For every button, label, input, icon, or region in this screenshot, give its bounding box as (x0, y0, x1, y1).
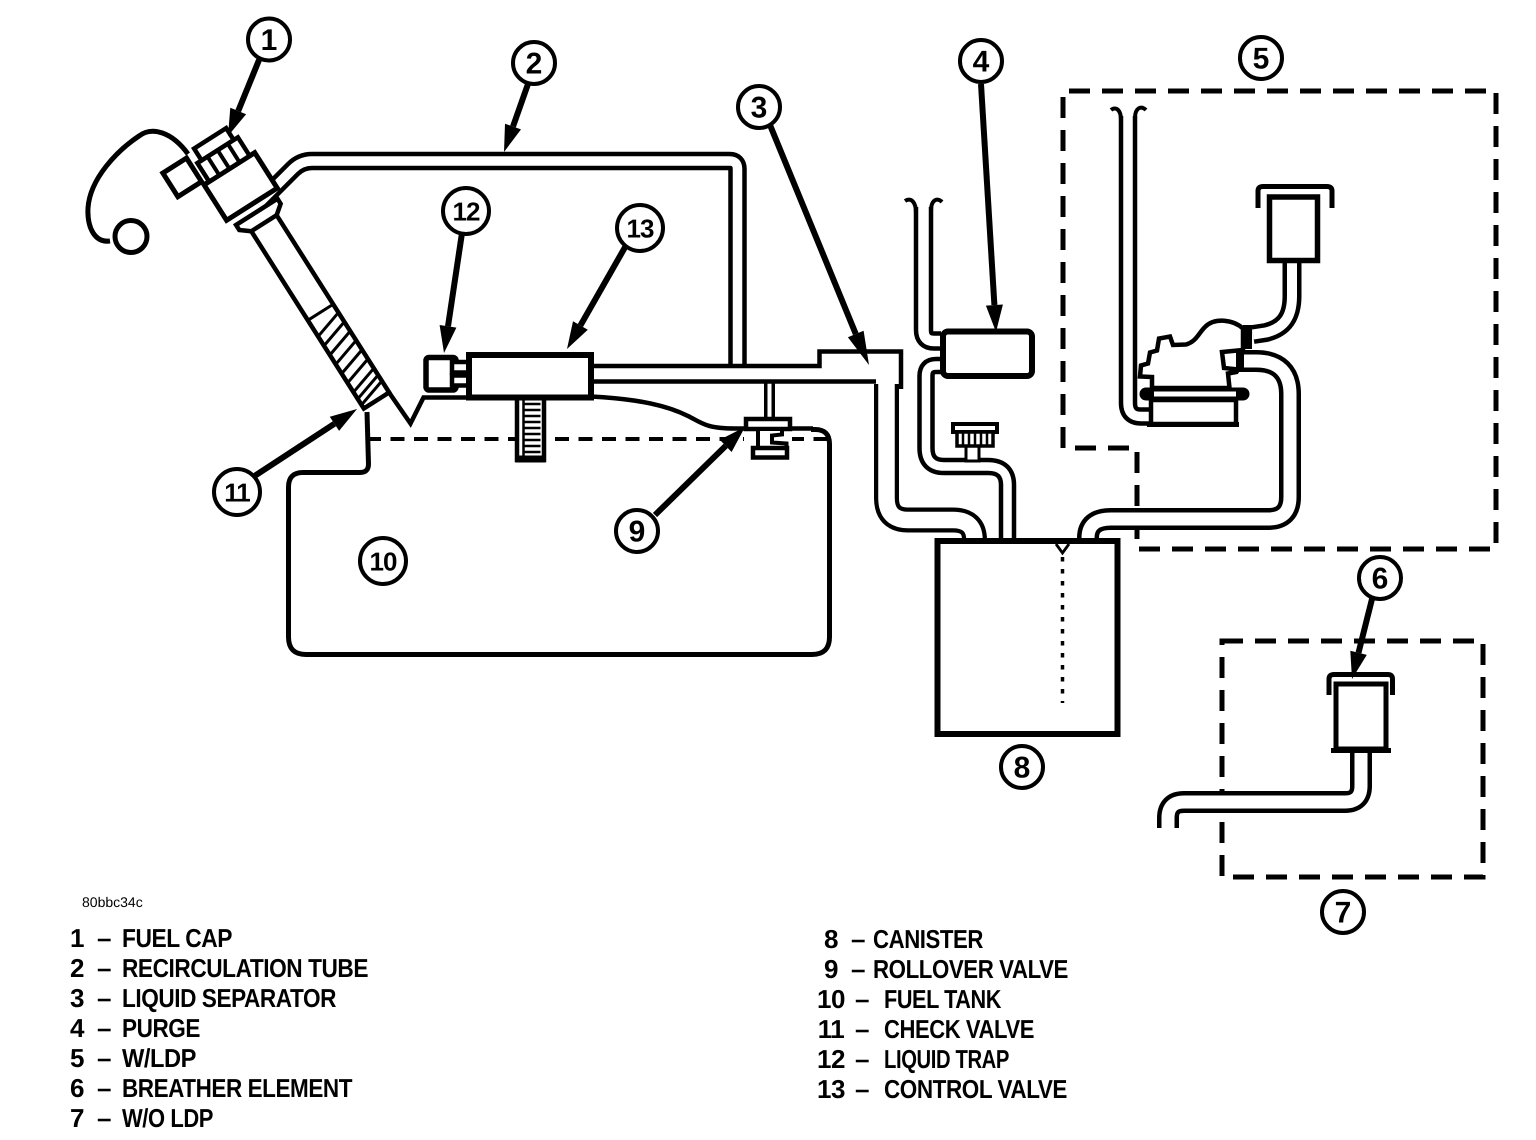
svg-text:3: 3 (70, 983, 84, 1013)
svg-text:11: 11 (224, 478, 250, 508)
svg-text:–: – (97, 1013, 111, 1043)
svg-text:2: 2 (70, 953, 84, 983)
canister (item 8) (938, 541, 1118, 734)
breather element (item 6) (1329, 675, 1393, 696)
callout circle 2 (513, 42, 555, 84)
svg-text:80bbc34c: 80bbc34c (82, 894, 143, 910)
svg-text:–: – (851, 924, 865, 954)
svg-text:CHECK VALVE: CHECK VALVE (884, 1014, 1034, 1044)
arrow to check valve (11) (253, 409, 357, 477)
svg-text:ROLLOVER VALVE: ROLLOVER VALVE (873, 954, 1068, 984)
callout circle 7 (1322, 891, 1364, 933)
liquid trap (item 12) (426, 358, 456, 391)
vent riser hook top (905, 200, 942, 213)
svg-text:–: – (855, 984, 869, 1014)
svg-text:6: 6 (70, 1073, 84, 1103)
fuel cap tether (88, 131, 188, 241)
fuel cap body (204, 153, 277, 221)
filler neck tube (250, 213, 389, 408)
svg-text:7: 7 (70, 1103, 84, 1133)
filler neck funnel (236, 199, 285, 237)
svg-text:–: – (855, 1044, 869, 1074)
svg-text:1: 1 (261, 24, 278, 57)
arrow to purge (4) (981, 84, 1003, 332)
callout circle 12 (443, 188, 489, 234)
svg-text:8: 8 (824, 924, 838, 954)
callout circle 11 (214, 469, 260, 515)
callout circle 13 (617, 205, 663, 251)
legend right column (817, 924, 1068, 1104)
callout circle 9 (616, 510, 658, 552)
svg-text:9: 9 (824, 954, 838, 984)
wire liquid separator drop to canister (887, 384, 975, 540)
arrow to liquid trap (12) (440, 233, 462, 353)
arrow to control valve (13) (567, 242, 628, 349)
svg-text:LIQUID TRAP: LIQUID TRAP (884, 1044, 1009, 1074)
control valve threaded stem (516, 398, 546, 460)
dashed fuel level line (367, 437, 829, 441)
arrow to recirculation tube (2) (504, 84, 528, 152)
wire LDP pump to canister (1088, 361, 1290, 538)
svg-text:–: – (855, 1074, 869, 1104)
wire main tube control valve to separator, top line (591, 352, 901, 390)
wire vent riser to purge (924, 207, 942, 341)
wire breather element tube (1168, 750, 1361, 828)
svg-text:7: 7 (1335, 897, 1352, 930)
svg-text:5: 5 (70, 1043, 84, 1073)
svg-text:–: – (97, 1073, 111, 1103)
fuel cap ridge band (197, 137, 249, 181)
callout circle 3 (738, 86, 780, 128)
svg-text:2: 2 (526, 48, 543, 81)
svg-text:–: – (97, 953, 111, 983)
svg-text:–: – (855, 1014, 869, 1044)
legend left column (70, 923, 368, 1133)
dashed box W/O LDP (item 7) (1222, 641, 1483, 877)
svg-text:–: – (97, 1103, 111, 1133)
svg-text:FUEL CAP: FUEL CAP (122, 923, 232, 953)
svg-text:FUEL TANK: FUEL TANK (884, 984, 1002, 1014)
dashed box W/LDP (item 5) (1063, 91, 1496, 549)
callout circle 8 (1001, 746, 1043, 788)
svg-text:13: 13 (627, 214, 654, 244)
svg-text:10: 10 (370, 547, 397, 577)
svg-text:5: 5 (1253, 43, 1270, 76)
svg-text:PURGE: PURGE (122, 1013, 200, 1043)
svg-text:CANISTER: CANISTER (873, 924, 984, 954)
svg-text:4: 4 (973, 46, 990, 79)
LDP pump body (1140, 321, 1243, 388)
wire LDP plug to pump elbow (1253, 260, 1292, 335)
wire main tube bottom line (591, 379, 876, 384)
svg-text:–: – (97, 1043, 111, 1073)
callout circle 6 (1359, 557, 1401, 599)
LDP electrical connector plug (1258, 187, 1332, 209)
svg-text:1: 1 (70, 923, 84, 953)
arrow to breather element (6) (1350, 599, 1372, 679)
arrow to fuel cap (1) (228, 60, 259, 136)
fuel cap top disc (item 1) (194, 128, 234, 160)
wire LDP vent riser (1128, 116, 1152, 417)
svg-text:BREATHER ELEMENT: BREATHER ELEMENT (122, 1073, 353, 1103)
svg-text:LIQUID SEPARATOR: LIQUID SEPARATOR (122, 983, 337, 1013)
wire purge to canister (926, 366, 1008, 539)
svg-text:CONTROL VALVE: CONTROL VALVE (884, 1074, 1067, 1104)
check valve hatched zone (item 11) (308, 304, 333, 320)
fuel filler neck group (rotated) (161, 122, 402, 432)
purge solenoid (item 4) (943, 332, 1032, 377)
callout circle 5 (1240, 37, 1282, 79)
control valve (item 13) (469, 355, 591, 398)
svg-text:12: 12 (817, 1044, 845, 1074)
svg-text:3: 3 (751, 92, 768, 125)
LDP vent riser hook top (1111, 108, 1146, 120)
svg-text:8: 8 (1014, 752, 1031, 785)
svg-text:10: 10 (817, 984, 845, 1014)
rollover valve (item 9) (744, 419, 792, 458)
canister vent ribbed cap (953, 424, 997, 461)
svg-text:12: 12 (453, 197, 480, 227)
LDP pump base (1151, 400, 1236, 424)
arrow to liquid separator (3) (770, 125, 869, 365)
fuel tank filler V notch and top line (388, 391, 470, 424)
callout circle 10 (360, 538, 406, 584)
fuel tank outline (item 10) (289, 412, 830, 655)
svg-text:–: – (97, 983, 111, 1013)
tether ring (115, 221, 147, 253)
wire rollover valve stem (764, 382, 775, 420)
svg-text:11: 11 (818, 1014, 845, 1044)
LDP pump port bars (1243, 325, 1252, 349)
svg-text:–: – (97, 923, 111, 953)
callout circle 4 (960, 40, 1002, 82)
callout circle 1 (248, 19, 290, 61)
svg-text:13: 13 (817, 1074, 845, 1104)
svg-text:4: 4 (70, 1013, 85, 1043)
wire recirculation tube (item 2) (258, 161, 738, 364)
LDP pump flange (1146, 388, 1243, 401)
fuel tank top S-curve to right edge (591, 397, 813, 429)
svg-text:6: 6 (1372, 563, 1389, 596)
svg-text:9: 9 (629, 516, 646, 549)
arrow to rollover valve (9) (655, 427, 745, 515)
fuel cap ratchet flange (163, 158, 202, 197)
svg-text:–: – (851, 954, 865, 984)
svg-text:W/LDP: W/LDP (122, 1043, 196, 1073)
svg-text:RECIRCULATION TUBE: RECIRCULATION TUBE (122, 953, 368, 983)
svg-text:W/O LDP: W/O LDP (122, 1103, 213, 1133)
